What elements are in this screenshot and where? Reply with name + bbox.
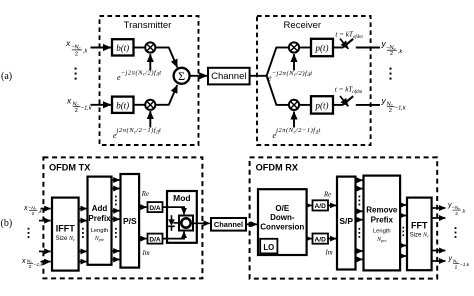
remove prefix block: [364, 176, 401, 271]
svg-text:Channel: Channel: [211, 71, 246, 82]
svg-text:Npre: Npre: [376, 237, 386, 243]
wire sp-rp 5: [356, 250, 363, 252]
svg-text:FFT: FFT: [411, 221, 428, 231]
filter b(t) top: [112, 39, 134, 55]
wire rp-fft 1: [400, 204, 406, 206]
svg-text:,k: ,k: [462, 208, 466, 214]
wire p(t)2 to sampler 2: [333, 104, 343, 106]
svg-text:2: 2: [389, 108, 392, 114]
svg-text:2: 2: [455, 211, 458, 217]
node y(-Nc/2,k) output label (b): [447, 202, 466, 217]
wire mixer1 to summer: [155, 47, 169, 49]
dots sp-rp column 1: [359, 196, 361, 206]
wire sampler1 out: [356, 47, 380, 49]
wire channel to splitter: [250, 75, 267, 77]
wire output b1: [432, 207, 446, 209]
node y(Nc/2-1,k) output label (b): [448, 256, 470, 271]
wire ap-ps 1: [112, 179, 120, 181]
svg-text:2: 2: [29, 264, 32, 270]
svg-text:x: x: [66, 95, 72, 105]
wire ap-ps 4: [112, 218, 120, 220]
node y(-Nc/2,k) output label: [381, 39, 404, 58]
A/D block bottom: [313, 234, 329, 244]
wire carrier feed 4: [293, 112, 295, 128]
svg-text:Remove: Remove: [366, 206, 398, 215]
svg-text:x: x: [21, 258, 26, 265]
svg-text:A/D: A/D: [315, 236, 327, 243]
svg-text:p(t): p(t): [315, 101, 329, 111]
dots ap-ps column 2: [115, 228, 117, 238]
svg-text:P/S: P/S: [123, 216, 137, 226]
svg-text:−1,k: −1,k: [460, 262, 470, 268]
svg-text:−1,k: −1,k: [34, 262, 44, 268]
wire input b1: [41, 208, 51, 210]
svg-text:O/E: O/E: [275, 204, 289, 213]
wire oe-ad re: [307, 204, 312, 206]
wire rp-fft 4: [400, 255, 406, 257]
svg-text:Σ: Σ: [178, 69, 185, 83]
svg-text:ej2π(Nc/2−1)fΔt: ej2π(Nc/2−1)fΔt: [273, 127, 321, 140]
filter p(t) top: [311, 39, 333, 56]
mixer X3: [289, 42, 299, 52]
mixer X2: [145, 100, 155, 110]
wire ap-ps 3: [112, 210, 120, 212]
A/D block top: [313, 200, 329, 210]
wire ps-da im: [139, 238, 146, 240]
dots sp-rp column 2: [359, 228, 361, 238]
wire input b3: [39, 250, 51, 252]
wire channel to oe: [246, 223, 257, 225]
wire b(t)2 to mixer: [134, 104, 145, 106]
svg-text:p(t): p(t): [315, 43, 329, 53]
wire stub to mixer 4: [276, 104, 289, 106]
svg-text:Receiver: Receiver: [284, 20, 322, 31]
D/A block top: [148, 202, 163, 212]
svg-text:Size Nc: Size Nc: [410, 233, 429, 239]
wire da2 to modulator: [163, 232, 185, 240]
wire input 1: [91, 47, 112, 49]
svg-text:Transmitter: Transmitter: [124, 20, 172, 31]
wire ifft-ap 4: [79, 261, 87, 263]
wire ifft-ap 3: [79, 250, 87, 252]
wire sp-rp 2: [356, 188, 363, 190]
dots ap-ps column 1: [115, 196, 117, 206]
wire oe-ad im: [307, 238, 312, 240]
svg-text:Size Nc: Size Nc: [56, 236, 75, 242]
add prefix block: [88, 177, 112, 265]
wire ad-sp im: [328, 238, 336, 240]
wire carrier feed 3: [293, 54, 295, 70]
svg-text:−1,k: −1,k: [395, 105, 407, 111]
wire ad-sp re: [328, 204, 336, 206]
svg-text:,k: ,k: [398, 49, 404, 55]
wire ap-ps 6: [112, 259, 120, 261]
svg-text:y: y: [448, 256, 453, 263]
svg-text:OFDM TX: OFDM TX: [49, 163, 91, 173]
wire output b4: [432, 260, 446, 262]
svg-text:(a): (a): [1, 71, 12, 82]
wire splitter down: [267, 76, 277, 105]
wire input b4: [41, 261, 51, 263]
P/S block: [121, 174, 140, 268]
svg-text:,k: ,k: [38, 209, 42, 215]
sampler switch 1: [340, 39, 353, 49]
laser diode: [168, 215, 179, 231]
svg-text:(b): (b): [1, 218, 13, 229]
svg-text:,k: ,k: [83, 49, 89, 55]
wire splitter up: [267, 47, 277, 76]
wire rp-fft 3: [400, 245, 406, 247]
wire carrier feed 2: [149, 111, 151, 127]
node x(Nc/2-1,k) input label: [66, 95, 93, 114]
svg-text:b(t): b(t): [116, 100, 129, 110]
node x(Nc/2-1,k) input label (b): [21, 258, 44, 270]
svg-text:Length: Length: [373, 229, 391, 235]
D/A block bottom: [148, 234, 163, 244]
svg-text:Length: Length: [91, 228, 109, 234]
svg-text:Re: Re: [141, 191, 149, 198]
wire ifft-ap 2: [79, 220, 87, 222]
wire p(t) to sampler 1: [333, 47, 343, 49]
svg-text:Re: Re: [323, 192, 331, 199]
mixer X1: [145, 42, 155, 52]
svg-text:x: x: [65, 38, 71, 48]
S/P block: [337, 177, 356, 270]
svg-text:D/A: D/A: [149, 236, 161, 243]
wire mod to channel: [193, 222, 210, 224]
IFFT block: [52, 198, 79, 271]
wire ap-ps 2: [112, 188, 120, 190]
dots input column (b): [28, 228, 30, 238]
wire ps-da re: [139, 206, 146, 208]
wire b(t) to mixer: [134, 47, 145, 49]
svg-text:ej2π(Nc/2−1)fΔt: ej2π(Nc/2−1)fΔt: [113, 127, 161, 140]
svg-text:IFFT: IFFT: [56, 224, 75, 234]
wire da1 to modulator: [163, 206, 185, 214]
filter b(t) bottom: [112, 97, 134, 113]
filter p(t) bottom: [311, 96, 333, 113]
wire carrier feed 1: [149, 54, 151, 70]
dots input column (a): [75, 68, 77, 80]
svg-text:e−j2π(Nc/2)fΔt: e−j2π(Nc/2)fΔt: [117, 69, 161, 82]
svg-text:2: 2: [455, 264, 458, 270]
transmitter dashed box: [100, 16, 199, 145]
svg-text:2: 2: [390, 51, 393, 57]
svg-text:2: 2: [75, 51, 78, 57]
svg-text:Im: Im: [142, 250, 150, 257]
svg-text:A/D: A/D: [315, 203, 327, 210]
svg-text:x: x: [23, 205, 28, 212]
LO block: [260, 239, 277, 254]
node x(-Nc/2,k) input label (b): [23, 205, 42, 217]
wire sp-rp 4: [356, 219, 363, 221]
node y(Nc/2-1,k) output label: [381, 95, 407, 114]
wire sp-rp 3: [356, 210, 363, 212]
svg-text:Conversion: Conversion: [260, 222, 304, 231]
wire mixer4 to p(t): [299, 104, 310, 106]
wire input 2: [91, 104, 112, 106]
FFT block: [407, 198, 432, 271]
svg-text:D/A: D/A: [149, 205, 161, 212]
wire input b2: [39, 220, 51, 222]
svg-text:Prefix: Prefix: [88, 214, 111, 223]
wire stub to mixer 3: [276, 47, 289, 49]
svg-text:S/P: S/P: [339, 216, 353, 226]
dots output column (a): [390, 68, 392, 80]
svg-text:y: y: [381, 95, 387, 105]
summer U1: [174, 68, 190, 84]
receiver dashed box: [257, 16, 371, 145]
svg-text:t = kTofdm: t = kTofdm: [335, 86, 363, 96]
wire summer to channel: [190, 75, 207, 77]
svg-text:2: 2: [32, 211, 35, 217]
dots output column (b): [455, 227, 457, 238]
wire output b3: [432, 250, 446, 252]
mixer X4: [289, 100, 299, 110]
svg-text:LO: LO: [263, 243, 274, 252]
svg-text:−1,k: −1,k: [81, 105, 93, 111]
channel block (b): [211, 218, 246, 231]
svg-text:t = kTofdm: t = kTofdm: [335, 31, 363, 41]
OFDM RX dashed box: [250, 157, 438, 278]
svg-text:2: 2: [75, 108, 78, 114]
svg-text:Mod: Mod: [173, 193, 190, 203]
wire sp-rp 6: [356, 258, 363, 260]
optical modulator square: [179, 216, 193, 231]
wire sampler2 out: [356, 104, 380, 106]
wire rp-fft 2: [400, 215, 406, 217]
O/E down-conversion block: [258, 189, 307, 255]
wire ap-ps 5: [112, 250, 120, 252]
svg-text:Channel: Channel: [214, 220, 243, 229]
svg-text:Down-: Down-: [270, 213, 295, 222]
svg-text:b(t): b(t): [116, 43, 129, 53]
svg-text:Add: Add: [92, 204, 108, 213]
channel block (a): [208, 68, 250, 85]
svg-text:e−j2π(Nc/2)fΔt: e−j2π(Nc/2)fΔt: [268, 70, 312, 83]
OFDM TX dashed box: [43, 157, 202, 278]
dots ifft-ap column: [82, 228, 84, 238]
wire output b2: [432, 217, 446, 219]
dots rp-fft column: [403, 227, 405, 236]
sampler switch 2: [340, 96, 353, 106]
svg-text:Prefix: Prefix: [371, 216, 394, 225]
wire ifft-ap 1: [79, 208, 87, 210]
wire mixer3 to p(t): [299, 47, 310, 49]
wire sp-rp 1: [356, 179, 363, 181]
node x(-Nc/2,k) input label: [65, 38, 89, 57]
Mod block: [167, 191, 197, 243]
svg-text:OFDM RX: OFDM RX: [256, 163, 299, 173]
wire mixer2 to summer: [155, 104, 169, 106]
svg-text:Npre: Npre: [94, 236, 104, 242]
svg-text:Im: Im: [325, 250, 333, 257]
